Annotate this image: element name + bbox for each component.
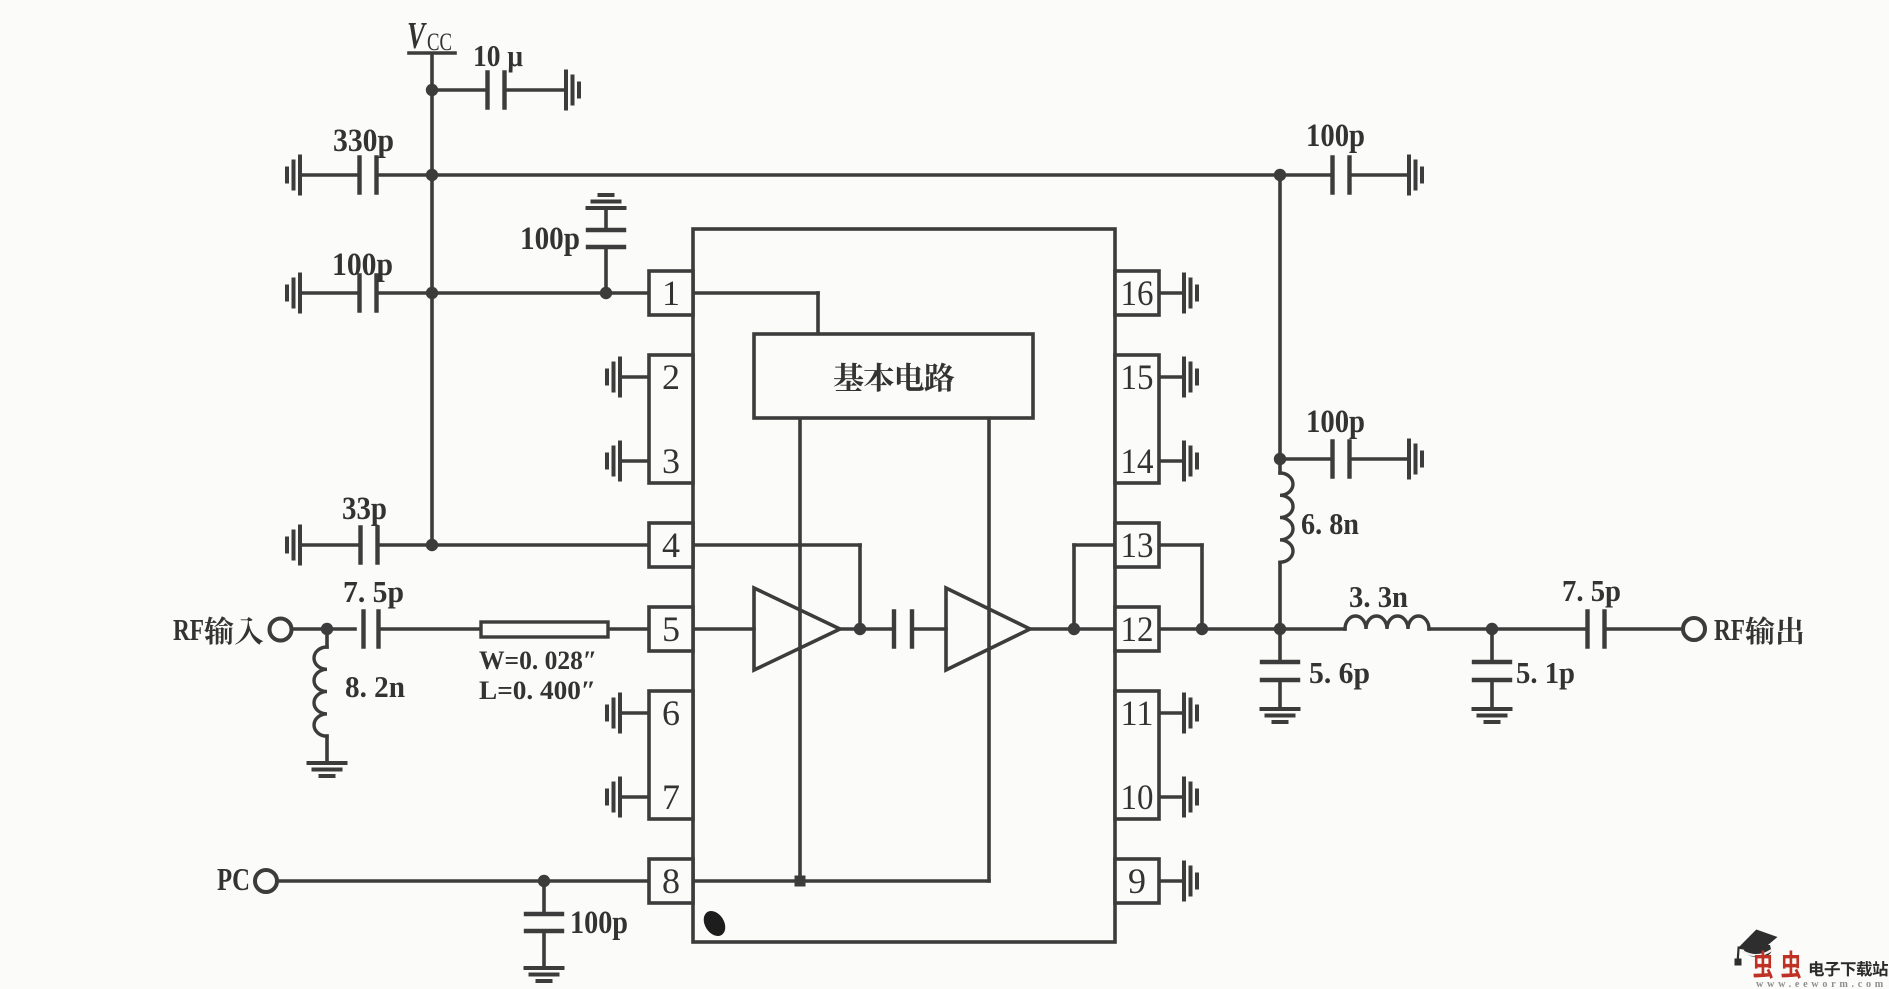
svg-text:CC: CC (427, 29, 452, 56)
svg-text:1: 1 (662, 273, 680, 313)
svg-text:16: 16 (1121, 273, 1154, 313)
svg-text:5. 1p: 5. 1p (1516, 655, 1575, 690)
svg-text:15: 15 (1121, 357, 1154, 397)
svg-text:10: 10 (1121, 777, 1154, 817)
svg-text:100p: 100p (520, 221, 580, 257)
svg-text:13: 13 (1121, 525, 1154, 565)
svg-text:100p: 100p (570, 905, 628, 941)
svg-text:12: 12 (1121, 609, 1154, 649)
svg-text:8. 2n: 8. 2n (345, 669, 405, 704)
svg-text:9: 9 (1128, 861, 1146, 901)
svg-text:100p: 100p (332, 247, 393, 283)
svg-text:100p: 100p (1306, 118, 1365, 154)
svg-text:RF: RF (1714, 612, 1745, 647)
svg-text:5: 5 (662, 609, 680, 649)
svg-text:L=0. 400″: L=0. 400″ (479, 676, 596, 705)
svg-text:5. 6p: 5. 6p (1309, 655, 1370, 690)
svg-text:www.eeworm.com: www.eeworm.com (1756, 978, 1887, 989)
svg-text:7. 5p: 7. 5p (343, 574, 404, 609)
svg-text:4: 4 (662, 525, 680, 565)
svg-text:10 μ: 10 μ (473, 38, 523, 73)
svg-text:PC: PC (217, 861, 250, 897)
svg-text:V: V (407, 15, 427, 57)
svg-text:14: 14 (1121, 441, 1154, 481)
svg-text:330p: 330p (333, 123, 394, 159)
svg-text:6. 8n: 6. 8n (1301, 506, 1359, 541)
svg-text:33p: 33p (342, 491, 387, 527)
svg-text:2: 2 (662, 357, 680, 397)
svg-text:100p: 100p (1306, 404, 1365, 440)
svg-text:RF: RF (173, 612, 204, 647)
svg-text:8: 8 (662, 861, 680, 901)
svg-text:7. 5p: 7. 5p (1562, 573, 1621, 608)
svg-text:W=0. 028″: W=0. 028″ (479, 646, 597, 675)
svg-text:3: 3 (662, 441, 680, 481)
svg-text:3. 3n: 3. 3n (1349, 579, 1408, 614)
svg-text:7: 7 (662, 777, 680, 817)
svg-text:11: 11 (1121, 693, 1154, 733)
svg-text:6: 6 (662, 693, 680, 733)
